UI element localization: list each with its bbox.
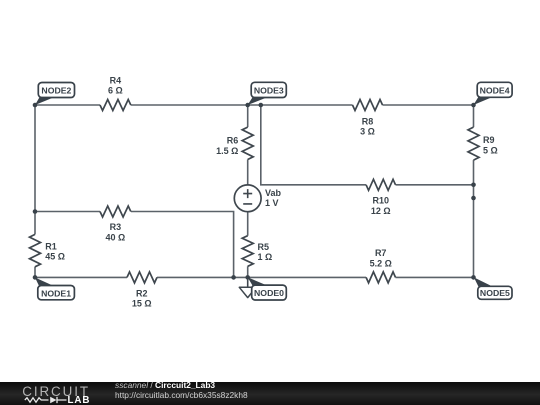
svg-text:6 Ω: 6 Ω	[108, 86, 123, 96]
svg-text:R8: R8	[362, 117, 374, 127]
node NODE0	[248, 277, 287, 300]
svg-text:1 Ω: 1 Ω	[258, 252, 273, 262]
node NODE5	[474, 277, 512, 299]
node NODE0 junction dot	[245, 275, 250, 280]
svg-text:5.2 Ω: 5.2 Ω	[370, 258, 392, 268]
node NODE4 junction dot	[471, 103, 476, 108]
resistor R2	[127, 272, 157, 283]
wire R3 row left lead	[35, 211, 100, 213]
wire top row right of R8	[383, 104, 474, 106]
svg-text:12 Ω: 12 Ω	[371, 206, 391, 216]
wire bottom row right of R7	[396, 276, 474, 278]
svg-text:40 Ω: 40 Ω	[106, 232, 126, 242]
resistor R7	[366, 272, 395, 283]
svg-text:NODE3: NODE3	[254, 85, 284, 95]
svg-text:1.5 Ω: 1.5 Ω	[216, 146, 238, 156]
svg-text:1 V: 1 V	[265, 198, 279, 208]
resistor R3	[100, 206, 131, 217]
svg-text:NODE4: NODE4	[480, 85, 510, 95]
credit text	[115, 382, 248, 400]
svg-text:Vab: Vab	[265, 188, 282, 198]
ground	[239, 277, 256, 297]
wire top row left of R4	[35, 104, 100, 106]
resistor R5	[242, 236, 253, 267]
svg-text:NODE2: NODE2	[41, 86, 71, 96]
wire branch NODE3 down and right to R10	[261, 105, 366, 185]
svg-text:NODE1: NODE1	[41, 288, 71, 298]
footer bar	[0, 382, 540, 405]
node NODE3 junction dot	[245, 103, 250, 108]
svg-text:45 Ω: 45 Ω	[45, 251, 65, 261]
resistor R6	[242, 127, 253, 159]
CircuitLab logo	[0, 382, 110, 405]
wire right column R9 to NODE5	[473, 160, 475, 277]
svg-text:R2: R2	[136, 289, 148, 299]
wire center column NODE3 to R6	[247, 105, 249, 127]
wire left column upper	[34, 105, 36, 234]
node NODE1 junction dot	[33, 275, 38, 280]
wire R3 row to corner and down	[131, 212, 234, 278]
junction dot NODE3 branch	[259, 103, 264, 108]
node NODE1	[35, 278, 74, 300]
svg-text:R1: R1	[45, 241, 57, 251]
wire R10 to right column	[396, 184, 474, 186]
junction dot left column / R3 wire	[33, 209, 38, 214]
wire bottom row between R2 and R7	[157, 276, 366, 278]
node NODE2	[35, 83, 75, 106]
resistor R8	[353, 100, 383, 111]
svg-text:R5: R5	[258, 242, 270, 252]
wire top row between R4 and R8	[131, 104, 353, 106]
svg-text:5 Ω: 5 Ω	[483, 145, 498, 155]
svg-text:R6: R6	[227, 135, 239, 145]
node NODE4	[473, 82, 512, 105]
svg-text:LAB: LAB	[68, 395, 91, 405]
svg-text:R4: R4	[110, 76, 122, 86]
svg-text:R3: R3	[110, 222, 122, 232]
wire right column NODE4 to R9	[473, 105, 475, 127]
resistor R4	[100, 100, 131, 111]
voltage source Vab	[234, 185, 261, 212]
node NODE5 junction dot	[471, 275, 476, 280]
svg-text:R9: R9	[483, 135, 495, 145]
node NODE3	[248, 82, 287, 105]
node NODE2 junction dot	[33, 103, 38, 108]
junction dot right column / R10 wire	[471, 183, 476, 188]
svg-text:NODE5: NODE5	[480, 288, 510, 298]
wire bottom row left of R2	[35, 276, 127, 278]
resistor R10	[366, 179, 395, 190]
wire left column lower	[34, 267, 36, 278]
resistor R1	[30, 234, 41, 266]
junction dot bottom row / R3 branch	[231, 275, 236, 280]
svg-text:NODE0: NODE0	[254, 288, 284, 298]
svg-text:3 Ω: 3 Ω	[360, 127, 375, 137]
svg-text:15 Ω: 15 Ω	[132, 299, 152, 309]
wire center column R6 to source	[247, 160, 249, 186]
svg-text:R7: R7	[375, 248, 387, 258]
wire center column source to R5	[247, 212, 249, 236]
junction dot right column	[471, 196, 476, 201]
svg-text:R10: R10	[373, 195, 390, 205]
wire center column R5 to NODE0	[247, 266, 249, 277]
resistor R9	[468, 127, 479, 160]
